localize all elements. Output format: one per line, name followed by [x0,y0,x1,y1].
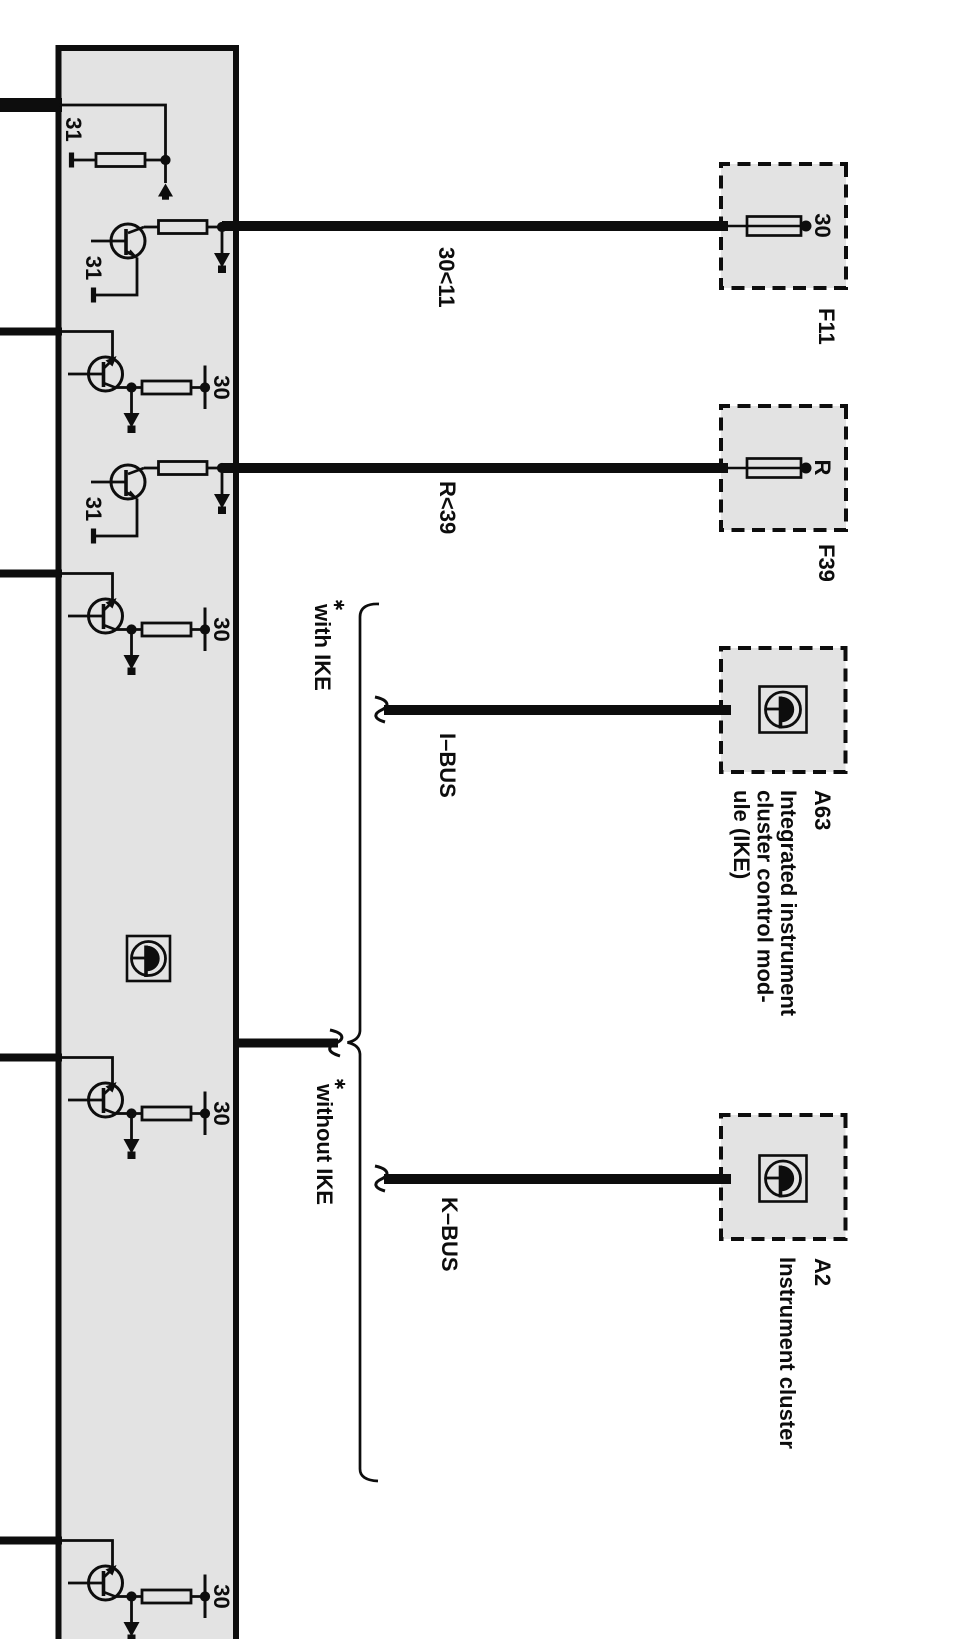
resistor R3 [142,381,191,394]
wire junction to resistor R2 [144,226,222,229]
wire stub to base of Q5 [59,1058,113,1087]
A2 electronic-unit symbol [760,1156,807,1202]
svg-text:31: 31 [61,117,86,141]
node junction Q5 collector [126,1108,136,1118]
resistor (pull-down to 31) [74,159,166,162]
svg-text:A63: A63 [810,790,835,830]
wire junction to arrow [130,1114,133,1140]
fuse F11 [726,225,808,228]
svg-text:F39: F39 [814,544,839,582]
wire junction to resistor R4 [144,467,222,470]
footnote asterisk (without IKE) [335,1080,345,1089]
svg-text:31: 31 [81,256,106,280]
connection arrow (right) [124,655,140,670]
svg-text:K–BUS: K–BUS [437,1197,462,1272]
ground bar 31 [69,153,74,168]
control module (gray strip) [59,48,237,1639]
ground stub wire for Q6 [0,1537,62,1545]
node junction Q2 collector [126,382,136,392]
brace grouping I-BUS / K-BUS [348,604,380,1481]
wire junction to resistor R5 [132,628,206,631]
svg-text:31: 31 [81,497,106,521]
svg-text:F11: F11 [814,308,839,345]
svg-text:ule (IKE): ule (IKE) [729,790,754,879]
svg-text:Integrated instrument: Integrated instrument [776,790,801,1017]
wire junction to resistor R3 [132,386,206,389]
module internal electronic-unit symbol [127,936,170,981]
A63 electronic-unit symbol [760,687,807,733]
wire emitter of Q3 to ground [96,499,137,537]
dashed box A63 [721,648,846,772]
wire junction to resistor R7 [132,1595,206,1598]
ground stub wire for Q4 [0,570,62,578]
ground bar G4 (terminal 31) [91,529,96,544]
fuse F39 [726,467,808,470]
connection arrow (right) [124,1139,140,1154]
wire junction to arrow [221,468,224,494]
node on 30 rail [200,1591,210,1601]
wire collector of Q2 to junction [117,386,132,389]
svg-text:cluster control mod-: cluster control mod- [753,790,778,1003]
node on 30 rail [200,1108,210,1118]
terminal 30 rail bar [204,1092,207,1136]
resistor R2 [159,221,208,234]
left-pointing connection arrow [158,184,173,197]
wire F39 to module [222,463,728,473]
connection arrow (right) [124,413,140,428]
svg-text:Instrument cluster: Instrument cluster [775,1257,800,1449]
resistor R4 [159,462,208,475]
transistor Q1 [91,224,145,259]
transistor Q5 [68,1082,123,1117]
svg-text:30: 30 [209,375,234,399]
svg-text:30: 30 [209,1101,234,1125]
I-BUS wire from A63 [384,705,731,715]
transistor Q3 [91,465,145,500]
svg-text:A2: A2 [810,1258,835,1286]
wire junction to resistor R6 [132,1112,206,1115]
terminal 30 rail bar [204,366,207,410]
break squiggle on K-BUS wire [375,1166,387,1191]
wire collector of Q6 to junction [117,1595,132,1598]
connection arrow (right) [214,253,230,268]
svg-text:30<11: 30<11 [434,247,459,308]
node junction Q6 collector [126,1591,136,1601]
terminal 30 rail bar [204,608,207,652]
node junction Q1 feed [217,222,227,232]
ground stub wire for Q5 [0,1054,62,1062]
wire collector of Q4 to junction [117,628,132,631]
svg-text:without IKE: without IKE [312,1083,337,1205]
wire stub to base of Q6 [59,1541,113,1570]
svg-text:R: R [810,460,835,476]
resistor R5 [142,623,191,636]
transistor Q2 [68,356,123,391]
ground stub wire for Q2 [0,328,62,336]
wire junction to arrow [130,630,133,656]
svg-text:R<39: R<39 [435,481,460,534]
ground bar G2 (terminal 31) [91,288,96,303]
terminal 30 rail bar [204,1575,207,1619]
break squiggle on merged wire [330,1030,342,1056]
fuse box F39 (dashed) [721,406,846,530]
wire junction to arrow [130,388,133,414]
terminal 31 main ground stub wire [0,98,62,112]
wire junction to arrow [221,227,224,253]
wire stub to base of Q2 [59,332,113,361]
wire from 31 stub up and right [59,105,166,183]
svg-text:I–BUS: I–BUS [435,733,460,798]
connection arrow (right) [214,494,230,509]
transistor Q4 [68,598,123,633]
svg-text:30: 30 [209,1584,234,1608]
svg-text:30: 30 [810,213,835,237]
transistor Q6 [68,1565,123,1600]
connection arrow (right) [124,1622,140,1637]
resistor R7 [142,1590,191,1603]
node junction Q4 collector [126,624,136,634]
wire stub to base of Q4 [59,574,113,603]
resistor R6 [142,1107,191,1120]
dashed box A2 [721,1115,846,1239]
wire F11 to module [222,221,728,231]
wire junction to arrow [130,1597,133,1623]
svg-text:with IKE: with IKE [310,603,335,691]
node on 30 rail [200,624,210,634]
svg-text:30: 30 [209,617,234,641]
node junction on wire [160,155,170,165]
merged bus wire into module [236,1039,338,1048]
break squiggle on I-BUS wire [375,697,387,722]
footnote asterisk (with IKE) [334,601,344,610]
node junction Q3 feed [217,463,227,473]
wire collector of Q5 to junction [117,1112,132,1115]
fuse box F11 (dashed) [721,164,846,288]
node on 30 rail [200,382,210,392]
wire emitter of Q1 to ground [96,258,137,296]
K-BUS wire from A2 [384,1174,731,1184]
